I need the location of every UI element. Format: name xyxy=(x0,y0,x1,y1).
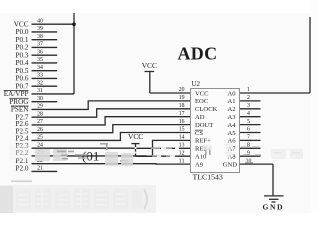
svg-text:TLC1543: TLC1543 xyxy=(193,172,223,181)
svg-text:20: 20 xyxy=(179,87,185,93)
svg-text:REF+: REF+ xyxy=(195,138,211,145)
svg-text:37: 37 xyxy=(37,42,43,48)
svg-text:27: 27 xyxy=(37,119,43,125)
svg-text:VCC: VCC xyxy=(195,90,209,97)
svg-text:19: 19 xyxy=(179,95,185,101)
svg-text:13: 13 xyxy=(179,143,185,149)
svg-text:4: 4 xyxy=(247,111,250,117)
svg-text:A1: A1 xyxy=(227,98,235,105)
svg-text:33: 33 xyxy=(37,73,43,79)
svg-text:24: 24 xyxy=(37,142,43,148)
svg-text:36: 36 xyxy=(37,49,43,55)
svg-text:1: 1 xyxy=(247,87,250,93)
svg-text:2: 2 xyxy=(247,95,250,101)
svg-text:40: 40 xyxy=(37,18,43,24)
svg-text:35: 35 xyxy=(37,57,43,63)
svg-text:3: 3 xyxy=(247,103,250,109)
svg-text:GND: GND xyxy=(223,161,238,168)
svg-text:U2: U2 xyxy=(192,80,201,88)
svg-text:CS: CS xyxy=(195,130,203,137)
svg-text:38: 38 xyxy=(37,34,43,40)
svg-text:AD: AD xyxy=(195,114,205,121)
svg-text:P2.0: P2.0 xyxy=(16,164,29,172)
svg-text:26: 26 xyxy=(37,127,43,133)
svg-text:GND: GND xyxy=(262,203,284,212)
svg-text:EOC: EOC xyxy=(195,98,209,105)
svg-text:A2: A2 xyxy=(227,106,235,113)
svg-text:21: 21 xyxy=(37,166,43,172)
svg-text:16: 16 xyxy=(179,119,185,125)
svg-text:A9: A9 xyxy=(195,161,204,168)
svg-text:29: 29 xyxy=(37,104,43,110)
svg-text:15: 15 xyxy=(179,127,185,133)
svg-text:CLOCK: CLOCK xyxy=(195,106,218,113)
svg-text:5: 5 xyxy=(247,119,250,125)
svg-text:25: 25 xyxy=(37,135,43,141)
svg-text:VCC: VCC xyxy=(128,132,143,141)
svg-text:28: 28 xyxy=(37,111,43,117)
svg-text:(01: (01 xyxy=(82,149,99,164)
svg-text:11: 11 xyxy=(179,158,185,164)
svg-text:18: 18 xyxy=(179,103,185,109)
svg-text:A4: A4 xyxy=(227,122,236,129)
svg-text:34: 34 xyxy=(37,65,43,71)
svg-text:12: 12 xyxy=(179,150,185,156)
svg-text:DOUT: DOUT xyxy=(195,122,213,129)
svg-text:6: 6 xyxy=(247,127,250,133)
svg-text:ADC: ADC xyxy=(178,44,218,64)
svg-text:A3: A3 xyxy=(227,114,236,121)
svg-text:31: 31 xyxy=(37,88,43,94)
svg-text:7: 7 xyxy=(247,135,250,141)
svg-text:39: 39 xyxy=(37,26,43,32)
svg-text:30: 30 xyxy=(37,96,43,102)
svg-text:14: 14 xyxy=(179,135,185,141)
svg-text:32: 32 xyxy=(37,80,43,86)
svg-text:A5: A5 xyxy=(227,130,236,137)
svg-text:VCC: VCC xyxy=(142,61,157,70)
svg-text:A0: A0 xyxy=(227,90,236,97)
svg-text:17: 17 xyxy=(179,111,185,117)
